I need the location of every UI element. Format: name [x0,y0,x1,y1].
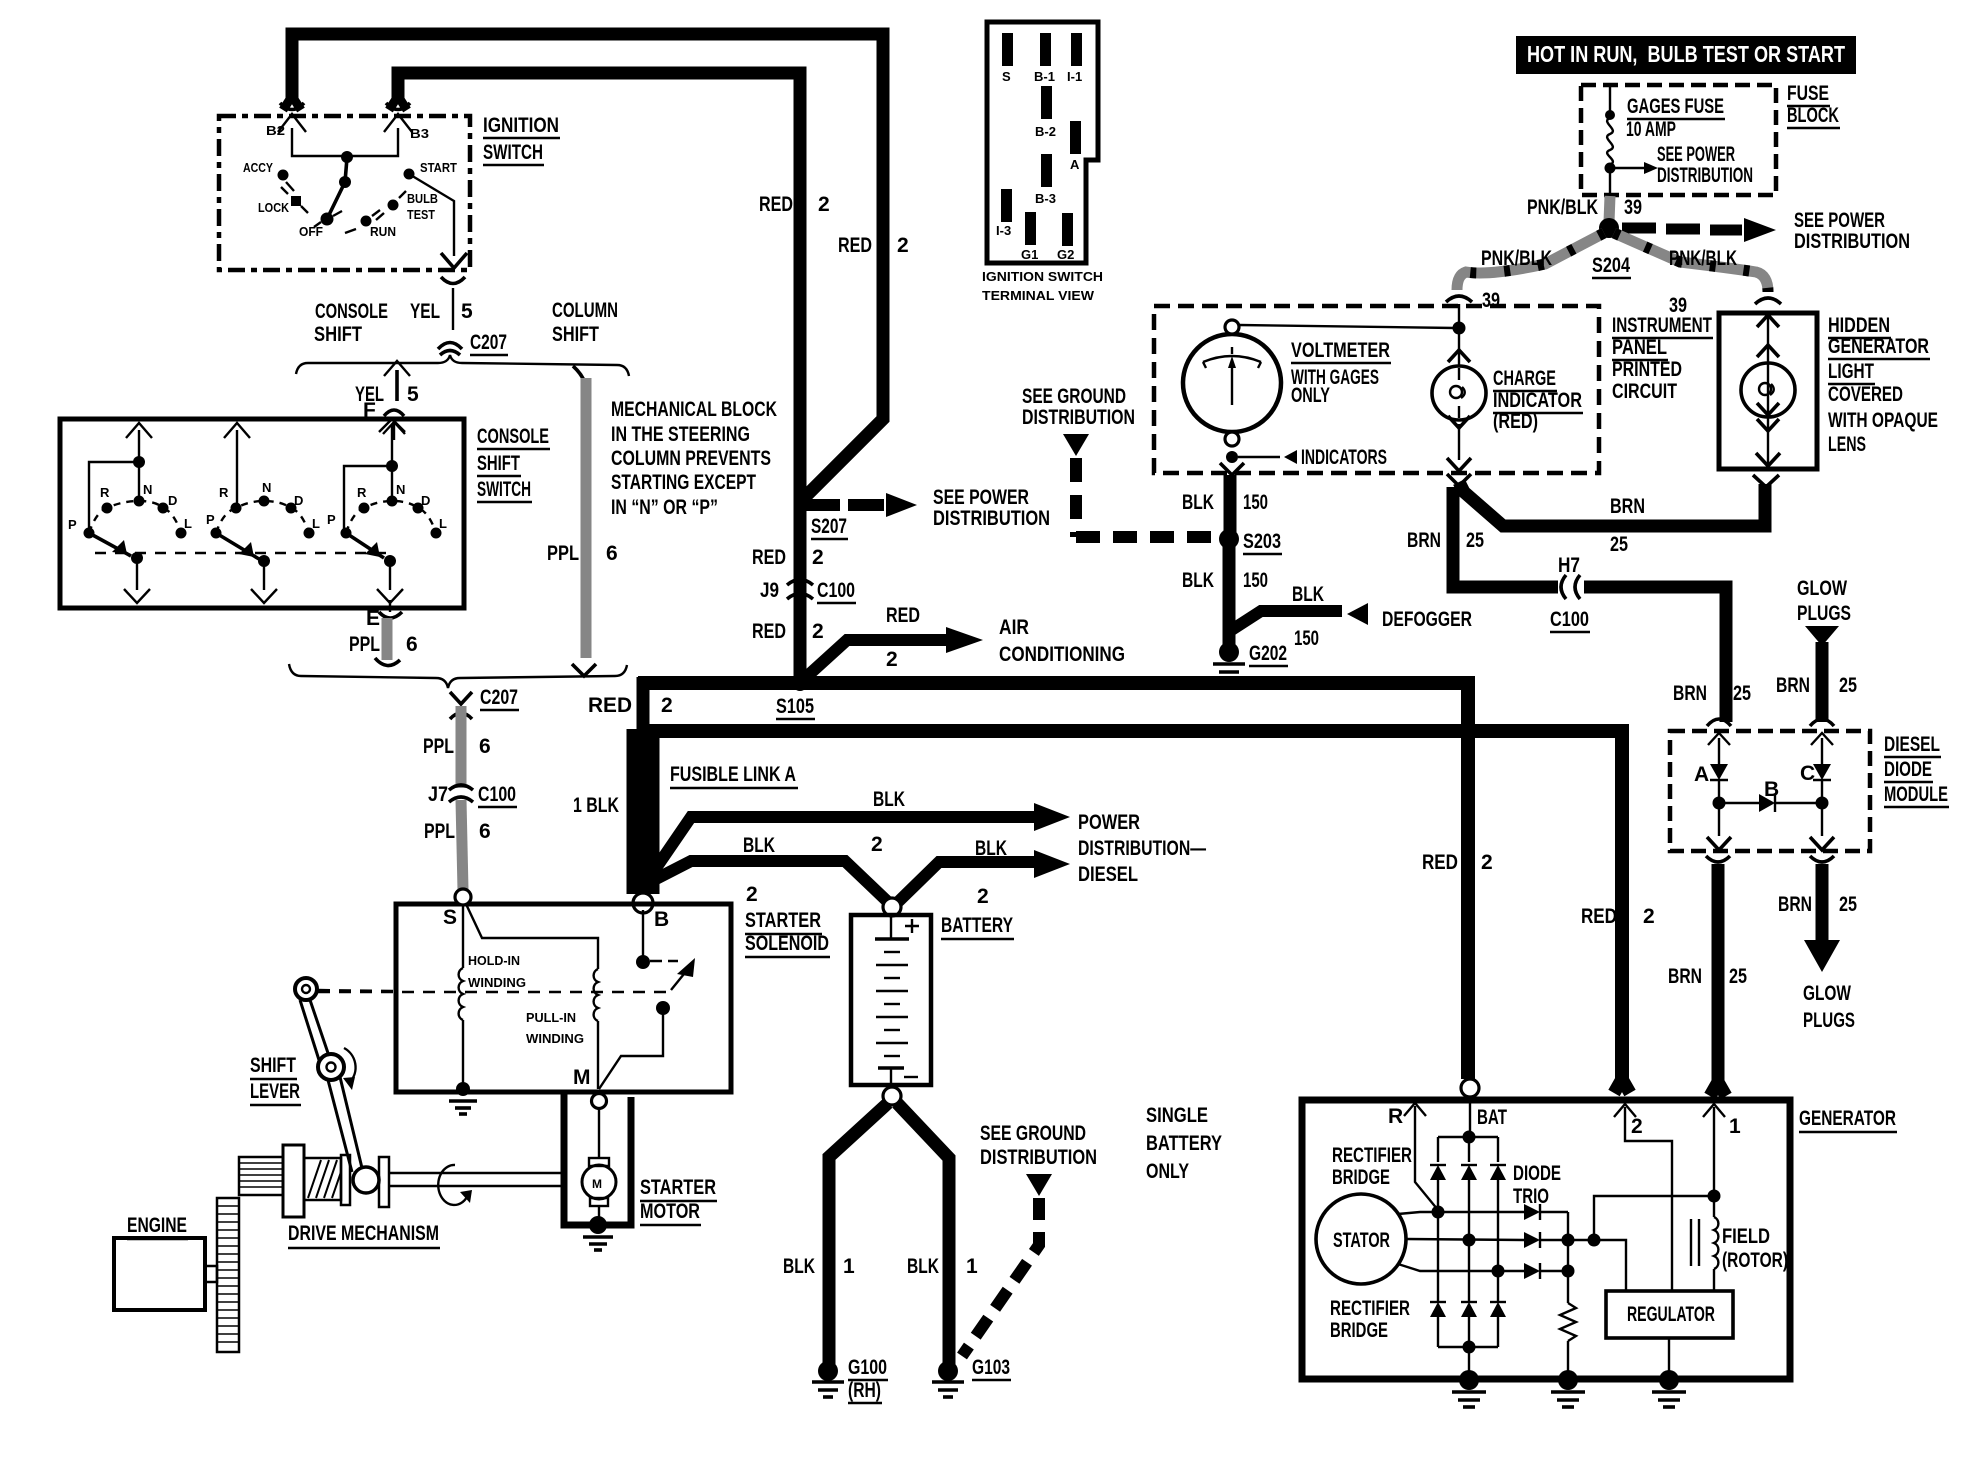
console shift switch box [60,419,464,608]
wire BLK 150 voltmeter to S203 [1224,475,1237,535]
svg-text:BRN: BRN [1407,529,1441,552]
label RED 2 (B3 wire) [759,193,830,216]
svg-text:SINGLE: SINGLE [1146,1104,1208,1127]
svg-text:DIESEL: DIESEL [1078,863,1138,886]
svg-text:25: 25 [1733,682,1751,705]
svg-text:2: 2 [661,694,673,717]
label RED 2 (BAT wire) [1422,851,1493,874]
diode B [1713,778,1829,812]
connector at ignition terminal B2 [278,103,306,132]
label YEL 5 F [355,383,419,422]
resistor [1560,1271,1576,1374]
wire ignition internal B2-B3 bus [292,128,398,156]
svg-text:IN THE STEERING: IN THE STEERING [611,423,750,446]
svg-text:C207: C207 [470,331,507,354]
label GLOW PLUGS (lower) [1803,982,1855,1032]
label RED 2 (below C100) [752,620,824,643]
charge indicator bulb [1432,328,1486,471]
svg-text:BRIDGE: BRIDGE [1330,1319,1388,1342]
svg-text:10 AMP: 10 AMP [1626,118,1676,141]
label PNK/BLK 39 (at fuse output) [1527,196,1642,219]
svg-text:INDICATORS: INDICATORS [1301,446,1387,469]
ignition switch terminal view housing [987,22,1098,263]
fusible link A heavy lead 1 BLK [627,729,660,894]
svg-text:ACCY: ACCY [243,160,273,175]
svg-text:RED: RED [588,694,632,717]
svg-text:FUSIBLE LINK A: FUSIBLE LINK A [670,763,796,786]
svg-text:LENS: LENS [1828,433,1866,456]
svg-text:2: 2 [1481,851,1493,874]
connector J7 C100 [428,783,517,807]
label BRN 25 (glow plugs output) [1778,893,1857,916]
hidden generator light box [1719,313,1817,469]
contact ACCY [243,160,294,191]
svg-text:BLK: BLK [873,788,905,811]
gages fuse 10 amp [1605,85,1616,203]
note MECHANICAL BLOCK text [611,398,777,519]
svg-text:H7: H7 [1558,554,1580,577]
wire BRN 25 to H7 and diesel diode module [1453,487,1726,722]
svg-text:G2: G2 [1057,247,1074,262]
contact START [404,160,458,180]
svg-text:(ROTOR): (ROTOR) [1722,1249,1788,1272]
wire START output to C207 [409,174,454,256]
svg-text:P: P [68,517,77,532]
label RED 2 (terminal 2 wire) [1581,905,1655,928]
label PPL 6 (E wire) [349,633,418,656]
svg-text:IGNITION SWITCH: IGNITION SWITCH [982,269,1103,284]
svg-text:HOT IN RUN, BULB TEST OR STAR: HOT IN RUN, BULB TEST OR START [1527,41,1845,67]
stator phase leads [1398,1212,1524,1271]
ground G103 [932,1356,1011,1397]
svg-text:C100: C100 [1550,608,1589,631]
label PPL 6 [424,820,491,843]
svg-text:S: S [443,906,457,929]
label BRN 25 (charge indicator) [1407,529,1484,552]
svg-text:RED: RED [752,546,786,569]
label SEE POWER DISTRIBUTION (S207) [933,486,1050,530]
terminal S (ring) [443,889,471,929]
label BLK 2 (upper branch) [871,788,905,856]
dashed arrow see power distribution (S204) [1622,218,1776,242]
svg-text:ONLY: ONLY [1291,384,1330,407]
label RECTIFIER BRIDGE (lower) [1330,1297,1410,1342]
terminal blade B-2 [1035,86,1056,139]
terminal R arrow [1388,1103,1438,1210]
label SHIFT LEVER [250,1054,301,1105]
terminal - of battery (ring) [883,1087,901,1105]
instrument panel printed circuit dashed box [1154,306,1599,473]
wire PPL 6 (C100 to starter solenoid S) [461,800,463,890]
svg-text:P: P [327,512,336,527]
field (rotor) winding [1691,1196,1718,1291]
svg-text:PNK/BLK: PNK/BLK [1669,247,1737,270]
svg-text:MOTOR: MOTOR [640,1200,700,1223]
label DIODE TRIO [1513,1162,1561,1208]
label INSTRUMENT PANEL PRINTED CIRCUIT [1612,314,1713,403]
svg-text:6: 6 [479,820,491,843]
svg-text:1 BLK: 1 BLK [573,794,619,817]
svg-text:SEE POWER: SEE POWER [1794,209,1885,232]
svg-text:N: N [262,480,271,495]
svg-text:C: C [1800,762,1815,785]
svg-text:COVERED: COVERED [1828,383,1903,406]
diode module outputs [1707,803,1834,850]
svg-text:J7: J7 [428,783,448,806]
wire PNK/BLK 39 left branch to instrument panel [1457,233,1604,290]
svg-text:RECTIFIER: RECTIFIER [1332,1144,1412,1167]
label BLK 2 (lower branch) [743,834,775,906]
svg-text:N: N [396,482,405,497]
terminal blade S [1002,33,1013,84]
wire BLK 1 battery to G100 [829,1103,888,1366]
connector E below shift switch [366,607,402,630]
svg-text:PRINTED: PRINTED [1612,358,1682,381]
label BRN 25 (module A feed) [1673,682,1751,705]
svg-text:(RED): (RED) [1493,410,1538,433]
label BLK 150 (upper) [1182,491,1268,514]
svg-text:PPL: PPL [349,633,380,656]
svg-text:6: 6 [406,633,418,656]
svg-text:MODULE: MODULE [1884,783,1948,806]
svg-text:GAGES FUSE: GAGES FUSE [1627,95,1724,118]
svg-text:TRIO: TRIO [1513,1185,1549,1208]
ground G202 [1213,642,1288,679]
svg-text:STATOR: STATOR [1333,1229,1390,1252]
svg-text:25: 25 [1610,533,1628,556]
wire link between buses [637,677,650,733]
svg-text:S105: S105 [776,695,814,718]
svg-text:25: 25 [1839,893,1857,916]
svg-text:N: N [143,482,152,497]
brace upper (connector C207 halves) [296,355,629,376]
svg-text:FUSE: FUSE [1787,82,1829,105]
label BRN 25 (horizontal run) [1610,495,1645,556]
connector C207 lower [450,686,519,719]
diode trio [1524,1204,1575,1279]
generator box [1302,1100,1790,1379]
label BLK 150 (lower) [1182,569,1268,592]
svg-text:C100: C100 [478,783,516,806]
svg-text:B3: B3 [410,126,429,141]
ground at starter motor [583,1216,613,1250]
label RED 2 (air conditioning wire) [886,604,920,671]
label SEE GROUND DISTRIBUTION (instrument panel) [1022,385,1135,429]
svg-text:YEL: YEL [410,300,440,323]
svg-text:FIELD: FIELD [1722,1225,1770,1248]
svg-text:39: 39 [1482,289,1500,312]
wire PNK/BLK 39 right branch to hidden generator light [1614,233,1768,292]
svg-text:2: 2 [746,883,758,906]
svg-text:2: 2 [818,193,830,216]
label FUSIBLE LINK A [670,763,798,788]
node feed junction [1453,322,1466,335]
svg-text:G103: G103 [972,1356,1010,1379]
wire voltmeter to charge indicator feed [1239,325,1455,328]
svg-text:COLUMN PREVENTS: COLUMN PREVENTS [611,447,771,470]
label SEE POWER DISTRIBUTION (S204) [1794,209,1910,253]
svg-text:L: L [184,516,192,531]
svg-text:PPL: PPL [423,735,454,758]
svg-text:GLOW: GLOW [1797,577,1847,600]
svg-text:BULB: BULB [407,191,438,206]
svg-text:E: E [366,607,380,630]
svg-text:25: 25 [1729,965,1747,988]
terminal blade I-1 [1067,33,1082,84]
ground G100 (RH) [812,1356,888,1403]
svg-text:P: P [206,512,215,527]
svg-text:BLOCK: BLOCK [1787,104,1839,127]
svg-text:2: 2 [897,234,909,257]
svg-text:B-2: B-2 [1035,124,1056,139]
shift switch gang 3 [327,419,447,612]
svg-text:S: S [1002,69,1011,84]
terminal + of battery (ring) [883,898,901,916]
connector at diode module input C [1810,719,1834,726]
svg-text:SEE GROUND: SEE GROUND [980,1122,1086,1145]
ground at rectifier bridge [1452,1370,1486,1407]
svg-text:2: 2 [1643,905,1655,928]
svg-text:2: 2 [977,885,989,908]
svg-text:B: B [1764,778,1779,801]
svg-text:CONSOLE: CONSOLE [315,300,388,323]
svg-text:CONDITIONING: CONDITIONING [999,643,1125,666]
svg-text:BRIDGE: BRIDGE [1332,1166,1390,1189]
label CONSOLE SHIFT (left of C207) [314,300,388,346]
regulator ground lead [1668,1338,1670,1374]
label RED 2 (below S207) [752,546,824,569]
label GLOW PLUGS (upper source) [1797,577,1851,625]
svg-text:2: 2 [886,648,898,671]
svg-text:SEE POWER: SEE POWER [1657,143,1735,166]
svg-text:AIR: AIR [999,616,1029,639]
label YEL 5 (above C207) [410,300,473,323]
linkage dashed line (gangs) [95,552,388,554]
svg-text:SHIFT: SHIFT [552,323,599,346]
svg-text:COLUMN: COLUMN [552,299,618,322]
svg-text:BRN: BRN [1610,495,1645,518]
label IGNITION SWITCH TERMINAL VIEW [982,269,1103,303]
svg-text:RED: RED [838,234,872,257]
svg-text:DRIVE MECHANISM: DRIVE MECHANISM [288,1222,439,1245]
connector at ignition terminal B3 [384,103,412,132]
svg-text:SEE POWER: SEE POWER [933,486,1029,509]
svg-text:BRN: BRN [1778,893,1812,916]
svg-text:VOLTMETER: VOLTMETER [1291,339,1390,362]
svg-text:25: 25 [1466,529,1484,552]
svg-text:BATTERY: BATTERY [1146,1132,1222,1155]
svg-text:PPL: PPL [424,820,455,843]
label AIR CONDITIONING [999,616,1125,666]
label RED 2 (B2 wire) [838,234,909,257]
svg-text:D: D [421,493,430,508]
indicators tap [1226,446,1387,469]
svg-text:START: START [420,160,457,175]
svg-text:L: L [439,516,447,531]
wire PPL 6 (C207 to C100) [456,706,467,788]
svg-text:BRN: BRN [1668,965,1702,988]
svg-text:LEVER: LEVER [250,1080,300,1103]
connector C207 (console/column shift) [438,331,508,355]
svg-text:BLK: BLK [1292,583,1324,606]
ground at regulator [1652,1370,1686,1407]
svg-text:HOLD-IN: HOLD-IN [468,953,520,968]
label BLK 1 (left) [783,1255,855,1278]
label ENGINE [127,1214,188,1239]
diesel diode module dashed box [1670,731,1870,851]
svg-text:PLUGS: PLUGS [1797,602,1851,625]
svg-text:DIODE: DIODE [1884,758,1932,781]
svg-text:RED: RED [1581,905,1617,928]
connector at generator terminal 2 [1614,1079,1672,1291]
svg-text:GENERATOR: GENERATOR [1828,335,1929,358]
wire BLK 1 battery to G103 [897,1103,949,1366]
terminal blade B-3 [1035,154,1056,206]
svg-text:A: A [1070,157,1080,172]
node ignition bus junction [341,151,353,163]
svg-text:25: 25 [1839,674,1857,697]
svg-text:D: D [168,493,177,508]
svg-text:C207: C207 [480,686,518,709]
label BATTERY [941,914,1014,939]
svg-text:2: 2 [1631,1115,1643,1138]
label IGNITION SWITCH [483,114,560,165]
terminal blade G1 [1021,212,1038,262]
svg-text:R: R [219,485,229,500]
svg-text:DISTRIBUTION—: DISTRIBUTION— [1078,837,1206,860]
solenoid moving contact arrow [650,958,695,990]
wire RED 2 from ignition B3 (inner top run) [398,73,800,509]
label BRN 25 (generator 1 feed) [1668,965,1747,988]
label BLK 150 (defogger) [1292,583,1324,650]
label CHARGE INDICATOR (RED) [1493,367,1583,433]
label PPL 6 (column shift wire) [547,542,618,565]
switch wiper arm (to OFF) [327,158,351,219]
connector J9 C100 [760,579,856,603]
label GAGES FUSE [1627,95,1725,119]
wire RED 2 from ignition B2 (outer top run) [292,34,883,501]
svg-text:BRN: BRN [1776,674,1810,697]
battery + symbol and plates [875,916,919,1087]
connector below module output A [1706,856,1730,862]
banner HOT IN RUN, BULB TEST OR START [1516,36,1856,74]
connector 39 at instrument panel [1446,289,1500,312]
svg-text:SWITCH: SWITCH [477,478,531,501]
svg-text:TERMINAL VIEW: TERMINAL VIEW [982,288,1095,303]
connector below module output C [1810,856,1834,862]
svg-text:DIODE: DIODE [1513,1162,1561,1185]
svg-text:M: M [592,1177,602,1191]
svg-text:1: 1 [1729,1115,1741,1138]
svg-text:REGULATOR: REGULATOR [1627,1303,1715,1326]
wire RED 2 trunk S207 to S105 [794,500,807,678]
svg-text:GENERATOR: GENERATOR [1799,1107,1896,1130]
label DRIVE MECHANISM [288,1222,440,1248]
svg-text:SHIFT: SHIFT [250,1054,296,1077]
label SINGLE BATTERY ONLY [1146,1104,1222,1183]
contact RUN [345,210,396,239]
svg-text:PLUGS: PLUGS [1803,1009,1855,1032]
wire BLK 2 battery to power distribution diesel [897,850,1070,903]
hidden generator light bulb [1741,313,1795,469]
svg-text:WITH OPAQUE: WITH OPAQUE [1828,409,1938,432]
connector at diode module input A [1707,719,1731,726]
contact OFF [299,211,342,239]
svg-text:RED: RED [752,620,786,643]
rectifier bridge lower diodes [1430,1212,1506,1374]
shift switch gang 1 [68,423,192,603]
svg-text:1: 1 [966,1255,978,1278]
contact LOCK [258,187,308,215]
starter motor housing [564,1094,631,1225]
label SEE GROUND DISTRIBUTION (battery) [980,1122,1097,1169]
diode C [1800,733,1833,799]
connector at generator terminal 1 [1703,1082,1741,1190]
splice S203 [1219,529,1282,554]
label RED 2 (bus left end) [588,694,673,717]
starter motor [582,1108,616,1218]
solenoid lower contact to M [599,1001,670,1089]
svg-text:BAT: BAT [1477,1106,1507,1129]
svg-text:5: 5 [407,383,419,406]
label BLK 2 (right branch) [975,837,1007,908]
wire BRN 25 glow plugs to diode module C [1805,626,1839,722]
stator [1316,1194,1406,1284]
svg-text:DISTRIBUTION: DISTRIBUTION [1657,164,1753,187]
svg-text:LIGHT: LIGHT [1828,360,1874,383]
svg-text:150: 150 [1243,569,1268,592]
svg-text:DISTRIBUTION: DISTRIBUTION [933,507,1050,530]
svg-text:R: R [100,485,110,500]
svg-text:SHIFT: SHIFT [477,452,520,475]
svg-text:SEE GROUND: SEE GROUND [1022,385,1126,408]
svg-text:I-3: I-3 [996,223,1011,238]
ignition switch dashed box [219,116,470,270]
svg-text:RUN: RUN [370,224,396,239]
starter solenoid box [396,904,731,1092]
splice S207 with dashed feed arrow [806,493,917,539]
wire BRN 25 charge indicator to hidden generator light [1447,474,1765,526]
svg-text:2: 2 [812,620,824,643]
svg-text:S204: S204 [1592,254,1630,277]
dashed linkage line through solenoid [318,991,667,993]
diode A [1694,733,1730,799]
svg-text:PNK/BLK: PNK/BLK [1527,196,1598,219]
svg-text:RECTIFIER: RECTIFIER [1330,1297,1410,1320]
wire BLK 150 S203 to G202 [1223,539,1236,645]
connector F at shift switch [383,410,405,440]
regulator box [1606,1291,1733,1338]
shift lever [295,978,362,1172]
solenoid switch contact from B [636,910,650,969]
dashed ground lead to G103 [962,1174,1052,1356]
svg-text:DISTRIBUTION: DISTRIBUTION [1794,230,1910,253]
svg-text:6: 6 [479,735,491,758]
svg-text:BRN: BRN [1673,682,1707,705]
connector below hidden generator light [1753,475,1779,487]
connector voltmeter output at box edge [1220,463,1244,475]
svg-text:DISTRIBUTION: DISTRIBUTION [980,1146,1097,1169]
svg-text:DISTRIBUTION: DISTRIBUTION [1022,406,1135,429]
svg-text:BLK: BLK [1182,491,1214,514]
label CONSOLE SHIFT SWITCH [477,425,550,502]
svg-text:LOCK: LOCK [258,200,290,215]
label HIDDEN GENERATOR LIGHT COVERED WITH OPAQUE LENS [1828,314,1938,456]
svg-text:SOLENOID: SOLENOID [745,932,829,955]
svg-text:D: D [294,493,303,508]
drive mechanism [217,1145,564,1352]
wire BLK 150 to defogger [1230,603,1368,631]
